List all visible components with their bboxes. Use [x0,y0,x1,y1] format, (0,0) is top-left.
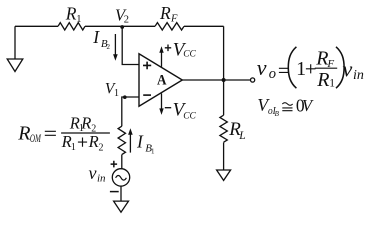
svg-text:R: R [316,69,329,91]
svg-text:2: 2 [99,142,104,153]
svg-text:B: B [275,110,280,118]
svg-text:1: 1 [114,88,119,99]
svg-text:v: v [257,55,267,80]
svg-text:F: F [170,14,178,25]
svg-text:1: 1 [329,78,335,90]
svg-text:1: 1 [151,148,155,156]
svg-text:v: v [89,163,97,183]
svg-text:in: in [97,173,106,185]
svg-text:1: 1 [296,58,306,80]
svg-text:I: I [136,131,144,151]
svg-text:R: R [17,123,30,145]
svg-text:o: o [269,66,276,82]
svg-text:L: L [238,130,245,142]
svg-text:1: 1 [71,142,76,153]
svg-text:R: R [159,3,171,23]
svg-text:R: R [80,114,91,133]
svg-text:2: 2 [107,43,111,51]
svg-text:1: 1 [76,14,81,25]
svg-text:v: v [343,56,353,81]
svg-text:I: I [92,27,100,47]
svg-text:CC: CC [183,112,196,122]
svg-text:A: A [157,72,167,88]
svg-text:R: R [65,3,77,23]
svg-text:V: V [302,96,314,115]
svg-text:CC: CC [183,49,196,59]
svg-text:R: R [88,132,99,151]
svg-text:2: 2 [124,15,129,26]
svg-text:in: in [353,68,364,83]
svg-text:OM: OM [30,133,42,145]
